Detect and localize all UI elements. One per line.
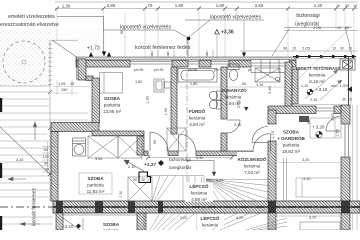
pm90 labels xyxy=(134,68,258,72)
szoba 11 label box xyxy=(79,173,112,194)
dim chain lines left xyxy=(42,142,56,173)
toilet shower room xyxy=(228,64,239,81)
sinks bathroom xyxy=(209,91,221,109)
svg-text:130: 130 xyxy=(43,155,49,159)
svg-text:SZOBA: SZOBA xyxy=(104,96,121,101)
lepcso upper xyxy=(185,183,213,202)
svg-text:75: 75 xyxy=(148,3,153,8)
svg-text:1,70: 1,70 xyxy=(271,131,275,138)
svg-text:lapostető vízelvezetés: lapostető vízelvezetés xyxy=(210,15,261,21)
roof valley diagonals left xyxy=(0,40,80,230)
railing leader arrow xyxy=(186,161,216,177)
svg-text:LÉPCSŐ: LÉPCSŐ xyxy=(201,214,220,221)
svg-text:lapostető vízelvezetés: lapostető vízelvezetés xyxy=(120,25,171,31)
corridor south wall segments y151 xyxy=(144,151,253,156)
svg-text:2,05: 2,05 xyxy=(237,100,241,107)
svg-text:parketta: parketta xyxy=(87,183,104,188)
svg-text:emeleti vízelvezetés: emeleti vízelvezetés xyxy=(8,14,55,20)
svg-text:15: 15 xyxy=(292,47,296,51)
roof drain box X xyxy=(340,59,355,70)
svg-text:50: 50 xyxy=(242,82,246,86)
svg-text:6,30: 6,30 xyxy=(196,156,203,160)
svg-text:ereszcsatornán elvezetve: ereszcsatornán elvezetve xyxy=(0,22,59,28)
svg-text:üvegkorlát: üvegkorlát xyxy=(169,165,192,171)
svg-text:biztonsági: biztonsági xyxy=(169,157,191,163)
svg-text:60: 60 xyxy=(133,178,137,182)
svg-text:ZUHANYZÓ: ZUHANYZÓ xyxy=(221,86,247,93)
dashed circle skylight xyxy=(3,41,45,83)
svg-text:SZOBA: SZOBA xyxy=(283,130,300,135)
svg-text:10: 10 xyxy=(353,4,357,8)
svg-text:3,50: 3,50 xyxy=(95,157,102,161)
shower east wall xyxy=(285,62,292,107)
svg-text:18,82 m²: 18,82 m² xyxy=(282,149,301,154)
svg-text:30: 30 xyxy=(141,178,145,182)
left arrows xyxy=(8,122,40,226)
lower fan right xyxy=(246,218,287,230)
shaft dark rect xyxy=(299,116,309,122)
boiler lower-left room xyxy=(73,138,86,156)
svg-text:1,30: 1,30 xyxy=(164,108,168,115)
marker +1,37 stairs xyxy=(144,160,164,168)
slope arrows terrace xyxy=(305,70,342,100)
svg-text:1,30: 1,30 xyxy=(119,191,123,198)
stipple gravel area top-left terrace xyxy=(0,29,106,86)
svg-text:FÜRDŐ: FÜRDŐ xyxy=(189,108,206,114)
wall y106 between terrace and room xyxy=(268,106,316,114)
svg-text:korcolt fémlemez fedés: korcolt fémlemez fedés xyxy=(135,45,191,51)
svg-text:1,30: 1,30 xyxy=(146,96,150,103)
svg-text:1,50: 1,50 xyxy=(336,129,340,136)
svg-text:3,20: 3,20 xyxy=(309,216,316,220)
svg-text:+ 3,20: + 3,20 xyxy=(312,125,325,130)
svg-text:90: 90 xyxy=(205,52,209,56)
gardrob partition xyxy=(283,158,285,201)
top dimension lines xyxy=(55,2,358,9)
stipple bottom edge xyxy=(0,85,50,87)
zuhanyzo xyxy=(221,86,247,106)
dim line y87 across bath xyxy=(180,86,292,88)
svg-text:2,60: 2,60 xyxy=(255,3,264,8)
ticks under korcolt label xyxy=(152,50,213,57)
svg-text:11,92 m²: 11,92 m² xyxy=(87,189,105,194)
closet X panels szoba 11 xyxy=(88,136,142,158)
svg-text:+3,36: +3,36 xyxy=(221,30,234,36)
svg-text:parketta: parketta xyxy=(104,103,121,108)
svg-text:+1,73: +1,73 xyxy=(87,46,100,52)
kozlekedo xyxy=(237,152,267,176)
svg-text:1,30: 1,30 xyxy=(62,4,71,9)
svg-text:kerámia: kerámia xyxy=(244,164,261,169)
bed lower room right xyxy=(296,178,341,197)
right boundary lines xyxy=(352,105,354,230)
vertical ruler line x50 xyxy=(49,40,51,201)
svg-text:2,10: 2,10 xyxy=(128,165,135,169)
svg-text:1,10: 1,10 xyxy=(256,83,263,87)
top exterior wall segments hatched xyxy=(76,60,296,67)
south wall of szoba 13 xyxy=(92,131,144,136)
terrace floor south edge xyxy=(298,104,341,106)
svg-text:2,85: 2,85 xyxy=(107,3,116,8)
window box opening to terrace xyxy=(251,60,289,73)
svg-text:1,90: 1,90 xyxy=(175,3,184,8)
small dims near stair xyxy=(119,178,145,197)
svg-text:10: 10 xyxy=(336,4,340,8)
svg-text:KÖZLEKEDŐ: KÖZLEKEDŐ xyxy=(238,156,267,162)
marker terrace xyxy=(307,87,328,95)
svg-text:1,22: 1,22 xyxy=(180,216,187,220)
label emeleti vizelvezetes xyxy=(0,14,59,28)
railing drain triangle xyxy=(347,87,352,93)
door bathroom xyxy=(179,134,196,151)
dashed match line through band xyxy=(0,206,360,208)
svg-text:kerámia: kerámia xyxy=(189,116,206,121)
svg-text:kerámia: kerámia xyxy=(202,223,219,228)
svg-text:15: 15 xyxy=(70,82,74,86)
fedett tetoterasz xyxy=(296,66,341,84)
svg-text:1,05: 1,05 xyxy=(58,82,65,86)
svg-text:LÉPCSŐ: LÉPCSŐ xyxy=(190,182,209,189)
dimension ticks top xyxy=(55,7,356,11)
svg-text:+ 3,18: + 3,18 xyxy=(315,87,328,92)
svg-text:+4,10: +4,10 xyxy=(62,224,74,229)
svg-text:2,05: 2,05 xyxy=(302,46,311,51)
lower plan walls xyxy=(56,213,63,230)
interior wall x137 xyxy=(137,136,144,155)
leader emeleti xyxy=(57,17,106,57)
furdo xyxy=(189,108,206,127)
svg-text:parketta: parketta xyxy=(283,143,300,148)
svg-text:2,40: 2,40 xyxy=(331,113,335,120)
svg-text:90: 90 xyxy=(120,30,124,34)
west wall mid segment xyxy=(92,78,100,123)
svg-text:10: 10 xyxy=(332,47,336,51)
svg-text:1,80: 1,80 xyxy=(190,82,197,86)
szoba + gardrob xyxy=(277,130,305,155)
svg-text:4,60 m²: 4,60 m² xyxy=(191,197,207,202)
svg-text:150: 150 xyxy=(61,88,67,92)
svg-text:1,20: 1,20 xyxy=(314,3,323,8)
terrace door lines xyxy=(316,108,334,111)
dash-dot section line x187 xyxy=(186,38,188,206)
bathroom west wall xyxy=(171,67,177,134)
svg-text:+1,37: +1,37 xyxy=(144,162,156,168)
terrace west wall xyxy=(292,69,298,104)
svg-text:pm 90: pm 90 xyxy=(154,68,164,72)
west wall lower segment xyxy=(51,132,58,202)
east exterior wall x341 xyxy=(341,105,350,124)
terrace railing top xyxy=(293,56,356,58)
closet X panel near door xyxy=(167,128,186,151)
biztonsagi uvegkorlat mid xyxy=(169,157,192,171)
bathtub xyxy=(178,69,217,83)
svg-text:90: 90 xyxy=(307,120,311,124)
svg-text:15: 15 xyxy=(348,98,352,102)
desk in szoba xyxy=(154,79,171,92)
svg-text:2,15: 2,15 xyxy=(310,98,317,102)
bathroom east wall xyxy=(221,67,227,119)
svg-text:biztonsági: biztonsági xyxy=(296,13,319,19)
svg-text:üvegkorlát: üvegkorlát xyxy=(295,22,319,28)
secondary dim line right y28 xyxy=(240,31,358,52)
svg-text:30: 30 xyxy=(345,4,349,8)
svg-text:3,20: 3,20 xyxy=(302,158,309,162)
szoba 13 xyxy=(103,96,122,114)
svg-text:90: 90 xyxy=(153,140,157,144)
label biztonsagi uvegkorlat top right xyxy=(295,13,320,28)
svg-text:1,10: 1,10 xyxy=(301,84,308,88)
svg-text:kerámia: kerámia xyxy=(309,73,326,78)
under-stair closet X xyxy=(128,177,152,201)
svg-text:30: 30 xyxy=(283,46,288,51)
svg-text:90: 90 xyxy=(166,52,170,56)
svg-text:pm 90: pm 90 xyxy=(134,68,144,72)
door east wall xyxy=(326,116,341,131)
shower X panel xyxy=(255,68,280,82)
svg-text:1,60: 1,60 xyxy=(135,80,142,84)
west jog wall band xyxy=(51,123,99,132)
svg-text:4,20: 4,20 xyxy=(216,179,223,183)
door szoba11/stair xyxy=(150,132,168,151)
svg-text:kerámia: kerámia xyxy=(225,95,242,100)
svg-text:2,10: 2,10 xyxy=(234,123,241,127)
svg-text:1,80: 1,80 xyxy=(216,3,225,8)
west wall outer leaf xyxy=(76,57,78,80)
svg-text:10: 10 xyxy=(337,26,341,30)
marker room right xyxy=(312,125,325,138)
door bathroom-shower xyxy=(227,120,240,133)
corridor east wall x268 xyxy=(268,110,276,124)
stair arrow up-left xyxy=(124,160,147,173)
svg-text:3,20: 3,20 xyxy=(303,177,310,181)
svg-text:SZOBA: SZOBA xyxy=(87,176,104,181)
svg-text:7,02 m²: 7,02 m² xyxy=(244,170,260,175)
window thin lines in top wall gaps xyxy=(130,62,229,65)
left edge black marks xyxy=(0,98,2,230)
lower plan thin lines xyxy=(63,213,340,230)
svg-text:+ GARDRÓB: + GARDRÓB xyxy=(277,134,305,141)
mid dim line xyxy=(148,157,232,159)
svg-text:90: 90 xyxy=(150,52,154,56)
lower lepcso xyxy=(197,215,224,229)
svg-text:4,84 m²: 4,84 m² xyxy=(189,122,205,127)
floor drain xyxy=(244,107,249,111)
top exterior wall outer leaf xyxy=(76,57,296,60)
terrace east railing xyxy=(348,57,350,105)
black step corner xyxy=(139,172,151,183)
west wall step xyxy=(86,76,93,81)
extension lines vertical from top xyxy=(57,9,354,58)
svg-text:SZOBA: SZOBA xyxy=(103,222,120,227)
svg-text:4,20: 4,20 xyxy=(236,216,243,220)
door shower xyxy=(253,134,271,152)
svg-text:13,88 m²: 13,88 m² xyxy=(103,109,122,114)
svg-text:kerámia: kerámia xyxy=(191,191,208,196)
door to room right xyxy=(252,127,268,143)
svg-text:FEDETT TETŐTERASZ: FEDETT TETŐTERASZ xyxy=(296,66,341,71)
svg-text:parketta: parketta xyxy=(103,228,120,230)
dimension numbers top xyxy=(62,3,357,9)
svg-text:30: 30 xyxy=(340,47,344,51)
dim line right room xyxy=(278,162,340,164)
roof seam lines left xyxy=(0,92,88,224)
svg-text:3,10: 3,10 xyxy=(16,158,23,162)
bed upper room right xyxy=(310,118,341,138)
bed in szoba xyxy=(100,73,123,94)
small dim lines left of wall xyxy=(53,80,90,95)
svg-text:30: 30 xyxy=(342,98,346,102)
svg-text:10: 10 xyxy=(45,168,49,172)
svg-text:2,90: 2,90 xyxy=(268,86,272,93)
west wall upper segment xyxy=(78,59,86,80)
